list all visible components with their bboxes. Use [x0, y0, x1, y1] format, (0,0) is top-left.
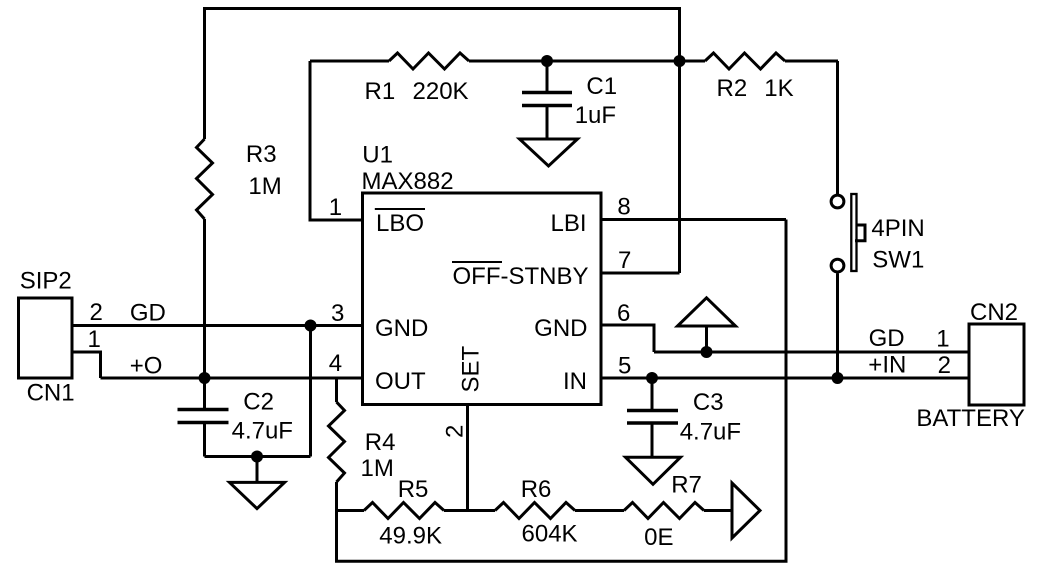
svg-text:5: 5: [618, 353, 631, 380]
wire power symbol stem: [705, 326, 708, 352]
svg-text:4.7uF: 4.7uF: [232, 418, 293, 445]
svg-text:1: 1: [88, 326, 101, 353]
junction node power-GD: [701, 346, 713, 358]
connector CN1 SIP2 body: [19, 298, 73, 378]
junction node R1-C1: [541, 55, 553, 67]
resistor R1: [389, 53, 469, 69]
svg-text:1: 1: [936, 326, 949, 353]
wire +O to OUT pin 4: [101, 377, 363, 380]
wire pin 7 horizontal to column: [601, 272, 680, 275]
ground symbol below C2: [230, 482, 285, 508]
svg-text:BATTERY: BATTERY: [916, 405, 1024, 432]
svg-text:LBI: LBI: [550, 210, 586, 237]
wire pin 5 IN to CN2 pin 2: [601, 377, 969, 380]
svg-text:2: 2: [442, 425, 469, 438]
capacitor C3 plates: [627, 411, 678, 424]
wire GD net to CN2 pin 1: [654, 351, 969, 354]
svg-text:+O: +O: [130, 353, 163, 380]
svg-text:4.7uF: 4.7uF: [680, 419, 741, 446]
resistor R2: [705, 53, 785, 69]
switch SW1 actuator bar: [851, 194, 856, 271]
wire pin 6 GND jog to GD net: [601, 325, 654, 352]
svg-text:R6: R6: [521, 476, 552, 503]
wire R7 to buffer: [704, 509, 732, 512]
junction node +O / R3 / C2: [199, 372, 211, 384]
buffer triangle at R7 output: [732, 483, 760, 538]
power symbol up triangle: [678, 298, 736, 326]
svg-text:7: 7: [618, 247, 631, 274]
svg-text:R5: R5: [398, 476, 429, 503]
svg-text:1M: 1M: [361, 455, 394, 482]
svg-text:R2: R2: [717, 75, 748, 102]
wire R4 bottom: [335, 482, 338, 511]
wire C1 top stem: [546, 61, 549, 93]
svg-text:SIP2: SIP2: [20, 268, 72, 295]
wire R5 to R6: [444, 509, 495, 512]
wire SW1 bottom to +IN net: [836, 273, 839, 378]
svg-text:GND: GND: [534, 315, 587, 342]
wire C1 bottom stem: [546, 106, 549, 140]
wire pin 8 LBI to right column: [601, 218, 786, 221]
overline for LBO: [375, 208, 425, 210]
wire R6 to R7: [575, 509, 624, 512]
resistor R6: [495, 503, 575, 519]
capacitor C2 plates: [178, 410, 229, 423]
wire OUT to R4 top: [335, 378, 338, 402]
svg-text:OFF-STNBY: OFF-STNBY: [453, 263, 589, 290]
switch SW1 bottom contact circle: [831, 259, 844, 272]
svg-text:1uF: 1uF: [575, 102, 616, 129]
svg-text:6: 6: [617, 300, 630, 327]
svg-text:C2: C2: [243, 389, 274, 416]
connector CN2 body: [969, 324, 1024, 405]
svg-text:1M: 1M: [248, 173, 281, 200]
junction node C2 ground tap: [251, 451, 263, 463]
svg-text:GND: GND: [375, 315, 428, 342]
svg-text:R7: R7: [671, 472, 702, 499]
svg-text:C3: C3: [693, 389, 724, 416]
svg-text:SET: SET: [458, 345, 485, 392]
svg-text:OUT: OUT: [375, 368, 426, 395]
switch SW1 top contact circle: [831, 195, 844, 208]
svg-text:+IN: +IN: [868, 352, 906, 379]
junction node IN / C3: [646, 372, 658, 384]
svg-text:4PIN: 4PIN: [871, 215, 924, 242]
svg-text:0E: 0E: [644, 524, 673, 551]
junction node R1-R2 top column: [674, 55, 686, 67]
ground symbol below C3: [626, 457, 681, 484]
wire ground stem below C2: [256, 457, 259, 483]
resistor R4: [329, 402, 345, 482]
wire SET pin 2 down: [466, 404, 469, 511]
wire GND net vertical: [309, 326, 312, 457]
switch SW1 plunger: [855, 225, 865, 241]
svg-text:GD: GD: [869, 325, 905, 352]
svg-text:220K: 220K: [413, 78, 469, 105]
wire C3 bottom stem: [651, 423, 654, 457]
resistor R7: [624, 503, 704, 519]
resistor R3: [197, 139, 213, 219]
wire R3 bottom to +O node: [203, 219, 206, 378]
junction node IN / SW1: [832, 372, 844, 384]
svg-text:8: 8: [617, 194, 630, 221]
svg-text:R1: R1: [365, 78, 396, 105]
svg-text:LBO: LBO: [376, 210, 424, 237]
overline for OFF: [452, 261, 502, 263]
wire R2 to switch SW1 top: [836, 61, 839, 194]
svg-text:U1: U1: [362, 142, 393, 169]
junction node pin3 GND: [305, 320, 317, 332]
svg-text:49.9K: 49.9K: [379, 523, 442, 550]
resistor R5: [364, 503, 444, 519]
svg-text:2: 2: [90, 299, 103, 326]
svg-text:GD: GD: [130, 300, 166, 327]
wire top net from R3 top to pin7 column: [205, 9, 680, 274]
IC U1 MAX882 body: [363, 193, 602, 405]
svg-text:SW1: SW1: [872, 247, 924, 274]
svg-text:2: 2: [938, 352, 951, 379]
capacitor C1 plates: [522, 93, 572, 106]
svg-text:1: 1: [329, 194, 342, 221]
wire CN1 pin 2 GD to pin 3 GND: [72, 324, 363, 327]
wire C3 top stem: [651, 378, 654, 411]
wire C2 bottom stem: [203, 423, 206, 457]
wire C2 bottom to GND column: [205, 455, 311, 458]
wire R4 to R5: [337, 509, 365, 512]
svg-text:R4: R4: [365, 429, 396, 456]
svg-text:IN: IN: [563, 368, 587, 395]
svg-text:MAX882: MAX882: [362, 168, 454, 195]
svg-text:C1: C1: [586, 73, 617, 100]
svg-text:CN2: CN2: [970, 299, 1018, 326]
svg-text:604K: 604K: [522, 521, 578, 548]
svg-text:R3: R3: [246, 141, 277, 168]
wire right column and bottom loop: [337, 220, 787, 562]
wire C2 top stem: [203, 378, 206, 410]
wire R1/R2 horizontal net: [310, 60, 838, 63]
wire R1 left branch down to pin 1: [310, 61, 363, 220]
svg-text:1K: 1K: [764, 75, 793, 102]
wire CN1 pin 1 +O jog: [72, 352, 101, 378]
svg-text:4: 4: [329, 350, 342, 377]
svg-text:3: 3: [331, 300, 344, 327]
svg-text:CN1: CN1: [27, 380, 75, 407]
ground symbol below C1: [520, 139, 578, 166]
